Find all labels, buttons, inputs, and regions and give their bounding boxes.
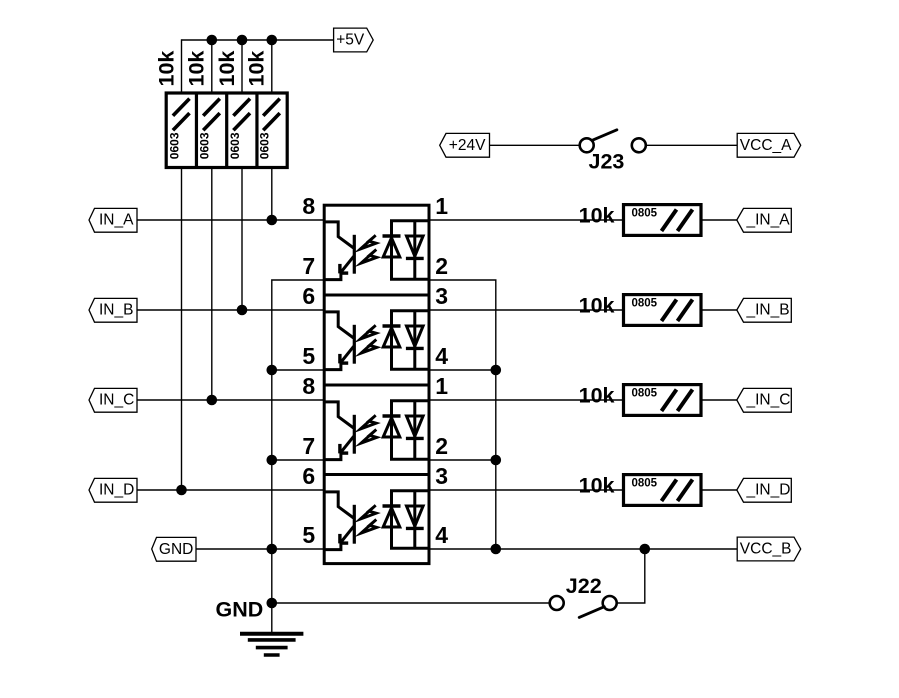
svg-text:0805: 0805 — [632, 298, 658, 310]
pin numbers right side — [435, 193, 448, 548]
jumper J22 — [550, 574, 617, 617]
optocoupler channel B back-to-back LEDs — [383, 311, 430, 370]
svg-text:_IN_A: _IN_A — [746, 212, 791, 229]
svg-text:7: 7 — [302, 253, 315, 279]
svg-text:3: 3 — [435, 283, 448, 309]
output flag _IN_B — [737, 298, 792, 322]
svg-text:_IN_D: _IN_D — [746, 482, 791, 499]
output flag _IN_C — [737, 388, 792, 412]
power flag +5V — [334, 28, 374, 52]
svg-text:10k: 10k — [579, 293, 615, 317]
resistor 10k 0805 RB — [579, 293, 701, 325]
svg-text:1: 1 — [435, 373, 448, 399]
svg-text:J23: J23 — [589, 149, 625, 173]
input flag IN_D — [89, 478, 137, 502]
wire opto pin3 ch4 to resistor — [429, 489, 624, 491]
svg-text:2: 2 — [435, 433, 448, 459]
wire emitter common / GND vertical — [267, 280, 325, 603]
resistor 10k 0805 RA — [579, 203, 701, 235]
svg-text:0805: 0805 — [632, 478, 658, 490]
svg-text:10k: 10k — [579, 473, 615, 497]
svg-text:10k: 10k — [579, 383, 615, 407]
jumper J23 — [580, 130, 646, 174]
wire VCC_B net — [429, 544, 737, 555]
svg-text:8: 8 — [302, 373, 315, 399]
svg-text:0603: 0603 — [258, 132, 272, 159]
ground flag GND — [152, 537, 196, 561]
optocoupler channel C phototransistor — [324, 402, 354, 460]
pin numbers left side — [302, 193, 315, 548]
svg-text:0603: 0603 — [198, 132, 212, 159]
svg-text:0603: 0603 — [228, 132, 242, 159]
svg-text:5: 5 — [302, 522, 315, 548]
wire +24V to J23 — [490, 144, 579, 146]
wire +5V bus — [182, 39, 334, 41]
wire J22 to VCC_B riser — [617, 549, 645, 603]
svg-text:0603: 0603 — [167, 132, 181, 159]
svg-text:2: 2 — [435, 253, 448, 279]
svg-text:IN_D: IN_D — [99, 482, 134, 499]
svg-text:_IN_C: _IN_C — [746, 392, 791, 409]
optocoupler channel A back-to-back LEDs — [383, 221, 430, 280]
wire IN_D net — [137, 485, 324, 496]
svg-text:0805: 0805 — [632, 388, 658, 400]
svg-text:+24V: +24V — [449, 137, 486, 154]
optocoupler channel B light arrows — [360, 325, 376, 353]
svg-text:0805: 0805 — [632, 208, 658, 220]
resistor 10k 0805 RC — [579, 383, 701, 415]
optocoupler channel D phototransistor — [324, 492, 354, 550]
svg-text:7: 7 — [302, 433, 315, 459]
power flag VCC_A — [737, 133, 801, 157]
wire opto pin1 ch3 to resistor — [429, 399, 624, 401]
input flag IN_B — [89, 298, 137, 322]
wire GND to J22 — [267, 598, 550, 609]
wire resistor to _IN_D flag — [701, 489, 737, 491]
output flag _IN_A — [737, 208, 792, 232]
svg-text:6: 6 — [302, 463, 315, 489]
svg-text:10k: 10k — [215, 51, 239, 87]
optocoupler channel C light arrows — [360, 415, 376, 443]
wire opto pin1 ch1 to resistor — [429, 219, 624, 221]
svg-text:IN_C: IN_C — [99, 392, 134, 409]
optocoupler channel D back-to-back LEDs — [383, 491, 430, 549]
svg-text:6: 6 — [302, 283, 315, 309]
svg-text:VCC_A: VCC_A — [740, 137, 792, 154]
optocoupler channel B phototransistor — [324, 312, 354, 370]
svg-text:4: 4 — [435, 343, 448, 369]
power flag VCC_B — [737, 537, 801, 561]
power flag +24V — [440, 133, 490, 157]
svg-text:3: 3 — [435, 463, 448, 489]
resistor bank 4x 10k 0603 — [154, 51, 287, 168]
wire resistor to _IN_A flag — [701, 219, 737, 221]
svg-text:GND: GND — [159, 541, 193, 558]
input flag IN_A — [89, 208, 137, 232]
svg-text:1: 1 — [435, 193, 448, 219]
svg-text:VCC_B: VCC_B — [740, 541, 792, 558]
svg-text:GND: GND — [216, 598, 264, 622]
svg-text:4: 4 — [435, 522, 448, 548]
output flag _IN_D — [737, 478, 792, 502]
optocoupler channel A phototransistor — [324, 222, 354, 280]
svg-text:5: 5 — [302, 343, 315, 369]
svg-text:+5V: +5V — [336, 32, 365, 49]
wire resistor bank top leads — [182, 39, 272, 93]
svg-text:10k: 10k — [185, 51, 209, 87]
wire LED common right vertical — [429, 280, 501, 554]
resistor 10k 0805 RD — [579, 473, 701, 505]
wire resistor to _IN_B flag — [701, 309, 737, 311]
svg-text:IN_A: IN_A — [99, 212, 134, 229]
wire resistor to _IN_C flag — [701, 399, 737, 401]
svg-text:8: 8 — [302, 193, 315, 219]
input flag IN_C — [89, 388, 137, 412]
wire IN_A net — [137, 215, 324, 226]
wire IN_B net — [137, 305, 324, 316]
optocoupler channel D light arrows — [360, 505, 376, 533]
optocoupler channel A light arrows — [360, 235, 376, 263]
svg-text:IN_B: IN_B — [99, 302, 133, 319]
wire IN_C net — [137, 395, 324, 406]
ground symbol GND — [216, 598, 304, 655]
wire GND flag to opto pin 5 — [196, 548, 324, 550]
svg-text:_IN_B: _IN_B — [746, 302, 790, 319]
svg-text:10k: 10k — [154, 51, 178, 87]
wire opto pin3 ch2 to resistor — [429, 309, 624, 311]
svg-text:J22: J22 — [566, 574, 602, 598]
junction dots on +5V bus — [207, 35, 278, 46]
optocoupler U1 outline — [324, 205, 429, 563]
svg-text:10k: 10k — [579, 203, 615, 227]
wire J23 to VCC_A — [647, 144, 737, 146]
optocoupler channel C back-to-back LEDs — [383, 401, 430, 460]
svg-text:10k: 10k — [245, 51, 269, 87]
wire resistor bank bottom leads — [182, 168, 272, 491]
